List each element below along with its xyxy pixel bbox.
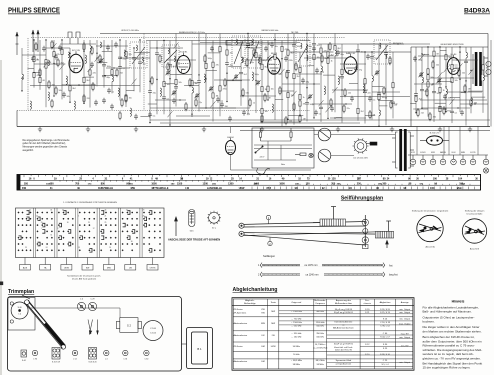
dial tick t21 bbox=[166, 175, 168, 178]
switch arrow B8 bbox=[211, 101, 216, 107]
svg-text:C 102: C 102 bbox=[150, 333, 157, 335]
resistor Rg30 bbox=[55, 86, 57, 95]
coil LD1.2 bbox=[421, 77, 424, 83]
IF transformer S21 box bbox=[248, 36, 261, 68]
wire link w24 bbox=[155, 99, 186, 101]
dial tick m21 bbox=[185, 180, 187, 181]
wire second rail bbox=[146, 40, 310, 42]
resistor Rg20 bbox=[246, 58, 248, 67]
heater labels bbox=[411, 151, 476, 154]
capacitor Cg4 bbox=[270, 42, 274, 48]
note text voltages bbox=[23, 139, 71, 152]
svg-text:min. Output: min. Output bbox=[399, 361, 410, 364]
wire power h4 bbox=[331, 134, 395, 136]
wire link w4 bbox=[120, 57, 150, 59]
dial tick m14 bbox=[141, 180, 143, 181]
svg-text:220: 220 bbox=[93, 72, 96, 74]
svg-text:10n: 10n bbox=[143, 64, 146, 66]
junction dot C10 bbox=[371, 51, 372, 52]
dial tick b16 bbox=[337, 187, 339, 190]
dial tick t3 bbox=[37, 175, 39, 178]
svg-text:max. Output: max. Output bbox=[399, 323, 411, 326]
svg-text:UKW: UKW bbox=[239, 187, 245, 190]
tuning drum upper shaft bbox=[331, 207, 336, 220]
coil Lg10 bbox=[306, 44, 307, 52]
svg-text:22n: 22n bbox=[137, 59, 140, 61]
resistor Rg13 bbox=[329, 42, 331, 51]
svg-text:800: 800 bbox=[101, 182, 106, 185]
wire elbow C6 bbox=[323, 74, 335, 76]
cord cross diagonal bbox=[244, 232, 388, 236]
svg-text:LANGWELLE: LANGWELLE bbox=[207, 187, 223, 190]
svg-text:68p: 68p bbox=[107, 77, 110, 79]
capacitor CX55 bbox=[94, 100, 98, 106]
dial tick m212 bbox=[374, 184, 376, 185]
switch button box KW bbox=[82, 258, 93, 271]
svg-text:LW: LW bbox=[272, 335, 275, 337]
resistor RX51 bbox=[470, 98, 472, 107]
svg-text:700: 700 bbox=[75, 182, 80, 185]
trimmplan bottom circle C60 bbox=[144, 350, 149, 360]
wire power box h1 bbox=[254, 144, 312, 146]
svg-text:Stellung der übrigen: Stellung der übrigen bbox=[465, 210, 485, 213]
svg-text:27: 27 bbox=[36, 216, 38, 218]
coil LX17 bbox=[204, 74, 205, 82]
dial tick t40 bbox=[302, 175, 304, 177]
cord pulley left lower bbox=[239, 231, 244, 236]
wire link w32 bbox=[460, 103, 488, 105]
capacitor CX30 bbox=[301, 78, 305, 84]
svg-text:56k: 56k bbox=[179, 82, 182, 84]
svg-text:Stellung der Drucktasten: eing: Stellung der Drucktasten: eingedrückt bbox=[412, 210, 449, 213]
svg-text:1500 kHz: 1500 kHz bbox=[316, 322, 325, 324]
svg-text:Meßsenders über: Meßsenders über bbox=[335, 302, 352, 305]
wire elbow D6 bbox=[438, 81, 452, 83]
junction dot A3 bbox=[45, 39, 46, 40]
trimmplan block pair B bbox=[89, 348, 97, 364]
svg-text:LW: LW bbox=[262, 335, 265, 337]
svg-text:C 100: C 100 bbox=[150, 328, 157, 330]
svg-text:LW: LW bbox=[129, 268, 132, 270]
wire af top rail 2 bbox=[318, 43, 430, 45]
wire stage B14 bbox=[261, 41, 263, 123]
svg-text:10n: 10n bbox=[361, 52, 364, 54]
resistor Rg1 bbox=[253, 48, 255, 57]
wire link w21 bbox=[22, 54, 46, 56]
wire stage B13 bbox=[255, 41, 257, 114]
resistor RA3.1 bbox=[45, 60, 47, 65]
tuning drum lower shaft bbox=[386, 221, 391, 231]
tube V5 EL84 bbox=[447, 55, 459, 75]
resistor Rg23 bbox=[204, 54, 206, 63]
svg-text:S 44: S 44 bbox=[22, 360, 26, 362]
IF transformer S20 coil upper bbox=[236, 39, 237, 45]
wire stage C2 bbox=[306, 34, 308, 122]
svg-text:MHz: MHz bbox=[457, 187, 463, 190]
svg-text:EM: EM bbox=[261, 346, 264, 348]
tube V6 EM84 magic eye bbox=[226, 138, 236, 155]
trimmplan connector line bbox=[182, 343, 187, 345]
resistor Rg17 bbox=[389, 56, 391, 65]
svg-text:GEGENTAKT-ENDSTUFE: GEGENTAKT-ENDSTUFE bbox=[440, 43, 464, 46]
switch arrow A3 bbox=[44, 61, 49, 67]
dial tick m29 bbox=[235, 180, 237, 181]
junction point B16.1 bbox=[274, 39, 275, 40]
svg-text:B4D93A: B4D93A bbox=[464, 8, 490, 15]
wire top rail bbox=[100, 33, 488, 35]
abgleich col line 5 bbox=[359, 299, 361, 369]
switch arrow B12 bbox=[246, 43, 251, 49]
dial tick m17 bbox=[160, 180, 162, 181]
svg-text:MW: MW bbox=[131, 187, 136, 190]
wire elbow A7 bbox=[84, 76, 94, 78]
wire link w18 bbox=[240, 95, 276, 97]
svg-text:8k2: 8k2 bbox=[338, 48, 341, 50]
power tube circle A bbox=[318, 128, 331, 141]
wire elbow D8 bbox=[461, 92, 466, 94]
dial tick t17 bbox=[137, 175, 139, 178]
svg-text:1M: 1M bbox=[268, 98, 271, 100]
svg-text:4n7: 4n7 bbox=[448, 98, 451, 100]
svg-text:min. Output: min. Output bbox=[399, 311, 410, 314]
ground G9 bbox=[468, 127, 472, 132]
wire elbow C5 bbox=[328, 55, 338, 57]
svg-text:KW: KW bbox=[86, 268, 89, 270]
coil LC6.2 bbox=[334, 50, 337, 56]
dial tick m225 bbox=[462, 184, 464, 185]
svg-text:an Dipolbuchsen: an Dipolbuchsen bbox=[336, 363, 352, 365]
resistor RX68 bbox=[443, 106, 445, 115]
wire stage C3 bbox=[313, 34, 315, 118]
ground G5 bbox=[260, 127, 264, 132]
wire stage C5 bbox=[327, 44, 329, 118]
capacitor CX19 bbox=[216, 97, 220, 103]
section label box bbox=[226, 41, 252, 46]
dial tick m13 bbox=[135, 180, 137, 181]
svg-text:Künstliche Antenne: Künstliche Antenne bbox=[335, 320, 354, 323]
dial tick m218 bbox=[415, 184, 417, 185]
power transformer T1 core bbox=[399, 129, 406, 171]
dial tick b22 bbox=[371, 187, 373, 190]
capacitor CB4.2 bbox=[174, 87, 178, 89]
switch button box AUS bbox=[20, 258, 31, 271]
wire stage C4 bbox=[320, 44, 322, 122]
dial tick t56 bbox=[416, 175, 418, 177]
svg-text:1: 1 bbox=[41, 228, 42, 230]
wire stage B0 bbox=[149, 41, 151, 123]
wire stage A12 bbox=[119, 40, 121, 100]
svg-text:EL 84: EL 84 bbox=[451, 54, 457, 56]
junction point A6.1 bbox=[69, 53, 70, 54]
wire elbow D4 bbox=[440, 49, 447, 51]
capacitor Cf10 bbox=[114, 42, 118, 48]
svg-text:MW: MW bbox=[261, 323, 265, 325]
dial tick b24 bbox=[382, 187, 384, 190]
trimmer CX18 bbox=[209, 86, 214, 91]
wire right B+ rail bbox=[487, 34, 489, 127]
svg-text:1M: 1M bbox=[303, 119, 306, 121]
svg-text:23: 23 bbox=[143, 209, 145, 211]
svg-text:2k2: 2k2 bbox=[419, 99, 422, 101]
wire stage D0 bbox=[415, 47, 417, 113]
svg-text:25: 25 bbox=[25, 247, 27, 249]
junction dot D1 bbox=[421, 107, 422, 108]
junction dot B5 bbox=[191, 113, 192, 114]
wire heater drop 3 bbox=[448, 127, 450, 156]
antenna coupling symbol bbox=[68, 32, 80, 44]
wire stage C8 bbox=[357, 44, 359, 121]
pulley stack base bbox=[363, 245, 368, 249]
svg-text:56k: 56k bbox=[246, 93, 249, 95]
wire stage A15 bbox=[139, 40, 141, 92]
svg-text:0,1: 0,1 bbox=[455, 113, 458, 115]
svg-text:1k: 1k bbox=[303, 97, 305, 99]
wire link w19 bbox=[312, 103, 352, 105]
wire stage A5 bbox=[61, 40, 63, 99]
svg-text:Abgleichen: Abgleichen bbox=[380, 301, 392, 304]
junction dot C1 bbox=[299, 115, 300, 116]
svg-text:10k: 10k bbox=[436, 65, 439, 67]
svg-text:470k: 470k bbox=[223, 88, 227, 90]
wire link w8 bbox=[258, 43, 296, 45]
svg-text:Ansicht A: Ansicht A bbox=[425, 246, 435, 249]
dial tick t51 bbox=[381, 175, 383, 178]
dial tick t43 bbox=[323, 175, 325, 178]
junction dot B10 bbox=[226, 101, 227, 102]
capacitor CA15.1 bbox=[138, 62, 142, 64]
resistor Rg26 bbox=[167, 62, 169, 71]
svg-text:47p: 47p bbox=[153, 92, 156, 94]
capacitor CC10.1 bbox=[370, 57, 374, 59]
dial tick t29 bbox=[223, 175, 225, 178]
IF transformer S9 box bbox=[130, 42, 147, 68]
svg-text:47p: 47p bbox=[359, 70, 362, 72]
junction dot D5 bbox=[445, 111, 446, 112]
resistor Rg34 bbox=[125, 94, 127, 103]
capacitor Cg3 bbox=[264, 46, 268, 52]
junction dot D7 bbox=[459, 46, 460, 47]
resistor RX23 bbox=[249, 98, 251, 107]
junction dot D2 bbox=[427, 46, 428, 47]
ground G6 bbox=[336, 127, 340, 132]
capacitor CX69 bbox=[460, 110, 464, 116]
power transformer primary winding bbox=[392, 132, 398, 168]
capacitor CD4.3 bbox=[438, 107, 442, 109]
svg-text:600: 600 bbox=[50, 182, 55, 185]
IF transformer S9 coil upper bbox=[136, 45, 137, 51]
coil LA11.2 bbox=[111, 76, 114, 82]
dial tick m1 bbox=[59, 180, 61, 181]
svg-text:470k: 470k bbox=[193, 83, 197, 85]
resistor RB14.1 bbox=[261, 64, 263, 69]
resistor RX36 bbox=[344, 88, 346, 97]
junction point C2.1 bbox=[306, 87, 307, 88]
svg-text:C 29: C 29 bbox=[91, 299, 95, 301]
wire link w34 bbox=[260, 121, 300, 123]
svg-text:Abstimmkreise: Abstimmkreise bbox=[234, 334, 248, 337]
svg-text:UKW 87,5-100 MHz: UKW 87,5-100 MHz bbox=[121, 30, 139, 32]
capacitor CB10.2 bbox=[225, 63, 229, 65]
resistor Rg37 bbox=[195, 98, 197, 107]
svg-text:ORTS: ORTS bbox=[150, 268, 156, 270]
dial tick m2 bbox=[65, 180, 67, 181]
svg-text:min. RV: min. RV bbox=[401, 346, 409, 348]
switch arrow A14 bbox=[132, 79, 137, 85]
dial tick t38 bbox=[288, 175, 290, 177]
dial tick t55 bbox=[409, 175, 411, 178]
coil Lf11 bbox=[124, 50, 125, 56]
resistor RC6.1 bbox=[334, 46, 336, 51]
svg-text:51: 51 bbox=[126, 209, 128, 211]
capacitor CA12.1 bbox=[118, 57, 122, 59]
switch arrow C6 bbox=[333, 87, 338, 93]
capacitor CC7.2 bbox=[340, 76, 344, 78]
svg-text:S 25, S 19: S 25, S 19 bbox=[380, 312, 391, 314]
svg-text:30 pF an g I EF 89: 30 pF an g I EF 89 bbox=[335, 309, 353, 311]
dial tick t63 bbox=[466, 175, 468, 178]
wire stage A1 bbox=[33, 40, 35, 88]
wire stage C0 bbox=[293, 34, 295, 125]
coil LD9.2 bbox=[470, 98, 473, 104]
dial scale left cap bbox=[17, 175, 20, 191]
dial tick m221 bbox=[435, 184, 437, 185]
svg-text:250: 250 bbox=[357, 182, 362, 185]
wire elbow B12 bbox=[248, 47, 261, 49]
resistor RX56 bbox=[119, 111, 121, 120]
dial tick b9 bbox=[297, 187, 299, 190]
cord bar 1 hatch bbox=[264, 265, 383, 266]
dial tick b15 bbox=[331, 187, 333, 190]
svg-text:22n: 22n bbox=[375, 58, 378, 60]
svg-text:← 88,5 MHz: ← 88,5 MHz bbox=[291, 360, 303, 362]
wire elbow A10 bbox=[104, 75, 117, 77]
dial tick b18 bbox=[348, 187, 350, 190]
cord number 1 circle bbox=[266, 215, 270, 223]
dial tick m22 bbox=[191, 180, 193, 181]
switch arrow D7 bbox=[458, 63, 463, 69]
abgleich col line 3 bbox=[313, 299, 315, 369]
wire elbow B16 bbox=[275, 99, 283, 101]
dial tick t15 bbox=[123, 175, 125, 178]
wire power h3 bbox=[314, 134, 318, 136]
junction dot B3 bbox=[169, 124, 170, 125]
wire elbow C10 bbox=[372, 86, 383, 88]
IF transformer S10 coil lower bbox=[174, 56, 175, 62]
resistor Rf6 bbox=[83, 42, 85, 51]
wire stage A11 bbox=[111, 40, 113, 93]
resistor RC13.1 bbox=[392, 83, 394, 88]
dial tick t28 bbox=[216, 175, 218, 177]
wire mid rail 3 bbox=[160, 122, 360, 124]
wire elbow B11 bbox=[228, 66, 241, 68]
svg-text:C 53: C 53 bbox=[123, 359, 127, 361]
svg-text:gelten für den 220 V-Betrieb (: gelten für den 220 V-Betrieb (Gleichrich… bbox=[23, 142, 67, 145]
resistor RD0.2 bbox=[415, 96, 417, 101]
dial scale line 1 bbox=[17, 179, 481, 181]
svg-text:25: 25 bbox=[105, 222, 107, 224]
svg-text:98 MHz: 98 MHz bbox=[293, 364, 300, 366]
pointer arrow right bbox=[386, 241, 389, 249]
dial tick m213 bbox=[381, 184, 383, 185]
trimmplan trimmer C29 bbox=[88, 299, 96, 311]
coil LX5 bbox=[66, 76, 67, 84]
resistor RC0.2 bbox=[293, 73, 295, 78]
wire elbow A2 bbox=[33, 72, 40, 74]
trimmplan pointer bar outline bbox=[25, 300, 66, 348]
coil LX54 bbox=[74, 101, 75, 109]
wire elbow A14 bbox=[134, 52, 150, 54]
capacitor Cg15 bbox=[350, 96, 354, 102]
junction dot A14 bbox=[133, 47, 134, 48]
svg-text:Taste: Taste bbox=[271, 301, 277, 304]
wire link w12 bbox=[360, 43, 404, 45]
wire stage A14 bbox=[133, 48, 135, 91]
wire elbow C7 bbox=[336, 117, 342, 119]
svg-text:Abgleichanleitung: Abgleichanleitung bbox=[233, 287, 278, 293]
svg-text:S 26, S 20: S 26, S 20 bbox=[380, 309, 391, 311]
trimmplan trimmer C4 bbox=[77, 299, 85, 311]
svg-text:55: 55 bbox=[50, 235, 52, 237]
dial tick m224 bbox=[455, 184, 457, 185]
svg-text:EM: EM bbox=[261, 361, 264, 363]
pilot lamp right bbox=[483, 168, 488, 173]
svg-text:30 pF an g I ECH 81: 30 pF an g I ECH 81 bbox=[334, 312, 354, 314]
svg-text:Drucktastenfälle: Drucktastenfälle bbox=[467, 213, 483, 216]
wire stage D5 bbox=[445, 47, 447, 112]
capacitor Cg24 bbox=[210, 46, 214, 52]
resistor RB2.1 bbox=[163, 82, 165, 87]
wire link w2 bbox=[60, 43, 96, 45]
resistor RC9.1 bbox=[364, 79, 366, 84]
abgleich col line 2 bbox=[278, 299, 280, 369]
dial tick t20 bbox=[159, 175, 161, 177]
dial tick t50 bbox=[373, 175, 375, 177]
dial tick t34 bbox=[259, 175, 261, 177]
svg-text:104: 104 bbox=[458, 178, 463, 181]
capacitor CC9.2 bbox=[363, 91, 367, 93]
svg-text:Abstimmkreise: Abstimmkreise bbox=[234, 360, 248, 363]
resistor RX22 bbox=[242, 88, 244, 97]
svg-text:Trimmplan: Trimmplan bbox=[8, 289, 34, 295]
svg-text:MW: MW bbox=[271, 311, 275, 313]
capacitor CB16.3 bbox=[273, 72, 277, 74]
capacitor CC11.1 bbox=[377, 93, 381, 95]
svg-text:15 der zugehörigen Röhre zu le: 15 der zugehörigen Röhre zu legen. bbox=[423, 366, 471, 370]
svg-text:← 350 kHz: ← 350 kHz bbox=[291, 333, 301, 335]
wire elbow A13 bbox=[126, 90, 134, 92]
dial tick m3 bbox=[72, 180, 74, 181]
svg-text:EABC 80: EABC 80 bbox=[346, 52, 356, 55]
capacitor Cf12 bbox=[54, 54, 58, 60]
heater circle EABC80 bbox=[440, 155, 446, 165]
dial tick m28 bbox=[347, 184, 349, 185]
IF transformer S21 tune arrow bbox=[250, 41, 259, 64]
svg-text:Anpassung des: Anpassung des bbox=[336, 299, 352, 302]
svg-text:gleichen ca. -7V vom RV angeze: gleichen ca. -7V vom RV angezeigt werden… bbox=[423, 356, 481, 360]
svg-text:500p: 500p bbox=[255, 74, 259, 76]
wire right rail 2 bbox=[490, 40, 492, 127]
wire stage A4 bbox=[53, 40, 55, 96]
junction link w30 bbox=[432, 83, 433, 84]
cord upper line 2 bbox=[244, 226, 365, 227]
IF transformer S22 tune arrow bbox=[298, 45, 308, 62]
svg-text:Meßsender-: Meßsender- bbox=[314, 299, 326, 302]
resistor RC1.1 bbox=[299, 67, 301, 72]
wire stage B12 bbox=[247, 34, 249, 116]
svg-text:10k: 10k bbox=[265, 111, 268, 113]
trimmplan needle pair bbox=[88, 320, 98, 335]
capacitor CB6.2 bbox=[197, 81, 201, 83]
